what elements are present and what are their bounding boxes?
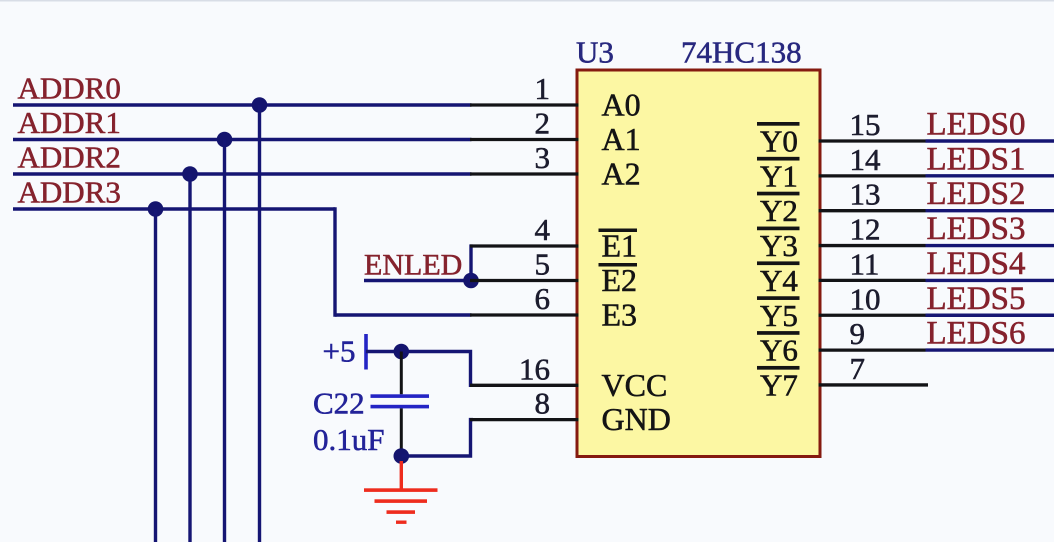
wire VCC node to pin 16 [401,352,473,386]
svg-text:C22: C22 [313,386,365,421]
top edge line [0,0,1054,2]
wire ADDR1 vertical drop [223,140,226,542]
wire ADDR3 to pin6 horizontal [335,313,472,316]
pin 1 stub [470,103,579,106]
capacitor C22 top lead [400,352,403,395]
svg-text:4: 4 [535,212,551,247]
pin 10 stub [819,314,926,317]
svg-text:E1: E1 [602,228,638,264]
pin 4 stub [470,244,579,247]
svg-text:9: 9 [850,316,866,351]
svg-text:GND: GND [602,401,671,437]
svg-text:ADDR3: ADDR3 [18,175,121,210]
pin 9 stub [819,348,926,351]
pin name E1 [599,228,638,264]
svg-text:Y1: Y1 [760,158,798,193]
wire ADDR3 vertical segment to E3 [333,207,336,316]
capacitor C22 top plate [371,394,430,398]
svg-text:15: 15 [850,107,881,142]
svg-text:1: 1 [535,71,551,106]
wire LEDS4 [926,279,1054,282]
pin 13 stub [819,209,926,212]
svg-text:74HC138: 74HC138 [681,35,802,70]
svg-text:+5: +5 [323,334,356,369]
pin name Y3 with overbar [757,227,800,263]
svg-text:U3: U3 [576,35,614,70]
svg-text:VCC: VCC [602,367,668,403]
svg-text:14: 14 [850,142,882,177]
wire GND node to pin 8 [401,420,473,456]
svg-text:LEDS2: LEDS2 [927,176,1026,212]
pin 15 stub [819,139,926,142]
pin name Y7 with overbar [757,366,800,403]
pin 2 stub [470,138,579,141]
svg-text:13: 13 [850,177,881,212]
junction dot on ADDR0 [252,97,268,113]
svg-text:LEDS1: LEDS1 [927,141,1026,177]
ground bar 3 [387,510,416,514]
wire ADDR3 horizontal [13,207,335,210]
svg-text:ADDR0: ADDR0 [18,71,121,106]
wire ADDR2 vertical drop [188,174,191,542]
wire LEDS1 [926,174,1054,177]
svg-text:6: 6 [535,281,551,316]
pin name E2 [599,262,638,298]
pin name Y0 with overbar [757,122,800,159]
svg-text:7: 7 [850,351,866,386]
svg-text:10: 10 [850,281,881,316]
svg-text:Y4: Y4 [760,263,798,298]
svg-text:2: 2 [535,106,551,141]
power port +5 bar symbol [364,334,368,370]
svg-text:12: 12 [850,212,881,247]
pin 16 stub [470,384,579,387]
wire ENLED up to pin 4 [469,244,472,280]
pin name Y4 with overbar [757,261,800,298]
svg-text:A1: A1 [602,121,641,157]
svg-text:Y7: Y7 [760,367,798,402]
svg-text:5: 5 [535,247,551,282]
pin 6 stub [470,313,579,316]
ground bar 1 [364,488,438,492]
svg-text:Y5: Y5 [760,298,798,333]
pin name Y2 with overbar [757,192,800,229]
pin name Y6 with overbar [757,331,800,368]
wire ADDR3 vertical drop [154,209,157,542]
pin 12 stub [819,244,926,247]
pin name Y5 with overbar [757,296,800,333]
pin 5 stub [470,279,579,282]
svg-text:Y2: Y2 [760,193,798,228]
junction dot on ADDR2 [182,166,198,182]
junction dot GND node [394,448,410,464]
junction dot ENLED node [463,273,479,289]
svg-text:Y3: Y3 [760,228,798,263]
svg-text:A0: A0 [602,87,641,123]
svg-text:LEDS3: LEDS3 [927,211,1026,247]
wire +5 to node [366,350,401,353]
pin 11 stub [819,279,926,282]
op-amp: IC U3 74HC138 body [577,70,820,457]
pin 7 stub [819,383,929,386]
capacitor C22 bottom plate [371,405,430,409]
wire ADDR1 horizontal [13,138,472,141]
svg-text:16: 16 [519,351,550,386]
wire LEDS5 [926,314,1054,317]
pin name Y1 with overbar [757,157,800,194]
capacitor C22 bottom lead [400,408,403,450]
svg-text:E3: E3 [602,297,638,333]
svg-text:A2: A2 [602,156,641,192]
svg-text:11: 11 [850,246,880,281]
pin 3 stub [470,172,579,175]
wire ADDR0 horizontal [13,103,472,106]
svg-text:3: 3 [535,140,551,175]
ground bar 4 [396,521,407,524]
ground bar 2 [375,499,428,503]
junction dot VCC node [394,344,410,360]
svg-text:Y6: Y6 [760,333,798,368]
ground symbol lead [400,461,403,490]
svg-text:LEDS6: LEDS6 [927,316,1026,352]
svg-text:LEDS4: LEDS4 [927,246,1026,282]
svg-text:0.1uF: 0.1uF [313,422,385,457]
wire ADDR2 horizontal [13,172,472,175]
pin 8 stub [470,418,579,421]
wire ENLED horizontal [364,279,471,282]
pin 14 stub [819,174,926,177]
svg-text:LEDS0: LEDS0 [927,107,1026,143]
svg-text:ADDR1: ADDR1 [18,105,121,140]
svg-text:8: 8 [535,386,551,421]
wire LEDS3 [926,244,1054,247]
wire LEDS2 [926,209,1054,212]
svg-text:ENLED: ENLED [364,249,462,282]
wire ADDR0 vertical drop [258,105,261,542]
wire LEDS6 [926,348,1054,351]
svg-text:ADDR2: ADDR2 [18,140,121,175]
svg-text:LEDS5: LEDS5 [927,281,1026,317]
wire LEDS0 [926,139,1054,142]
junction dot on ADDR3 [148,201,164,217]
junction dot on ADDR1 [217,132,233,148]
svg-text:Y0: Y0 [760,124,798,159]
svg-text:E2: E2 [602,262,638,298]
